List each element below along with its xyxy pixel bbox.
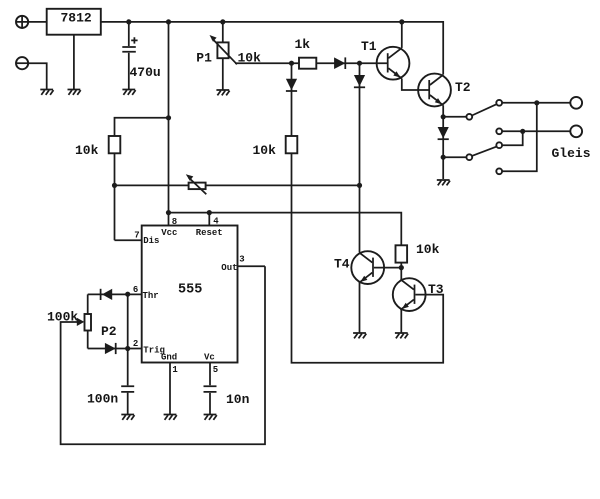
diode D4	[438, 127, 449, 139]
wire throw4 crossover	[502, 103, 537, 172]
node D1/T1 base	[357, 61, 362, 66]
svg-text:Out: Out	[221, 263, 237, 273]
regulator IC 7812	[47, 9, 101, 35]
trimmer R4	[115, 174, 360, 194]
resistor R3 10k	[286, 136, 298, 153]
svg-text:Vc: Vc	[204, 353, 215, 363]
pin 6 Thr	[133, 285, 159, 301]
pin 5 Vc	[204, 353, 218, 415]
capacitor C1 470u	[122, 22, 137, 90]
wire C2 branch	[127, 294, 129, 414]
svg-text:7: 7	[134, 231, 139, 241]
svg-text:1k: 1k	[295, 37, 311, 52]
resistor R1 10k	[109, 118, 169, 240]
diode D5	[101, 289, 113, 300]
pin 1 Gnd	[161, 353, 178, 415]
switch S1 blade2	[472, 147, 497, 156]
potentiometer P2 100k	[77, 294, 91, 348]
wire rail down to 555 supply	[168, 22, 170, 213]
svg-text:5: 5	[213, 365, 218, 375]
svg-text:T1: T1	[361, 39, 377, 54]
ground	[204, 415, 217, 420]
transistor T2	[418, 74, 451, 107]
diode D2	[354, 75, 365, 87]
switch S1 throw4 contact	[496, 168, 502, 174]
svg-text:P2: P2	[101, 324, 117, 339]
svg-text:Gnd: Gnd	[161, 353, 177, 363]
svg-text:100n: 100n	[87, 392, 118, 407]
svg-text:Thr: Thr	[143, 291, 159, 301]
svg-text:7812: 7812	[61, 10, 92, 25]
node throw2/crosswire	[520, 129, 525, 134]
ground	[122, 90, 135, 95]
ground	[40, 90, 53, 95]
wire T4 emitter	[359, 283, 361, 334]
node pin8	[166, 210, 171, 215]
terminal Gleis A	[570, 97, 582, 109]
potentiometer P1 10k	[210, 22, 238, 90]
wire switch pole1	[443, 116, 466, 118]
capacitor C3 10n	[204, 386, 217, 392]
svg-text:555: 555	[178, 283, 202, 298]
wire P1 wiper line	[235, 62, 388, 64]
resistor R5 10k	[396, 245, 408, 262]
wire T4 base	[374, 267, 401, 269]
node R5/T4 base/T3 collector	[399, 265, 404, 270]
diode D3	[286, 79, 297, 91]
svg-text:2: 2	[133, 339, 138, 349]
node D2/pot wire	[357, 183, 362, 188]
node D4/switch	[441, 155, 446, 160]
switch S1 blade1	[472, 104, 497, 115]
node Trig/C2	[125, 346, 130, 351]
wire Trig branch	[88, 348, 142, 350]
svg-text:10n: 10n	[226, 392, 250, 407]
svg-text:T4: T4	[334, 257, 350, 272]
svg-text:T3: T3	[428, 282, 444, 297]
node Thr/C2	[125, 292, 130, 297]
node rail/Vcc branch	[166, 19, 171, 24]
op-amp U1 555 box	[142, 226, 238, 363]
svg-text:10k: 10k	[75, 143, 99, 158]
svg-text:4: 4	[213, 217, 219, 227]
wire T2 emitter chain	[442, 105, 444, 179]
node R1 branch	[166, 115, 171, 120]
switch S1 throw3 contact	[496, 142, 502, 148]
svg-text:Dis: Dis	[143, 236, 159, 246]
transistor T1	[377, 47, 410, 80]
ground	[68, 35, 81, 95]
terminal Gleis B	[570, 125, 582, 137]
wire vertical D2 branch	[359, 63, 361, 252]
ground	[121, 415, 134, 420]
pin 4 Reset	[196, 213, 223, 238]
svg-text:P1: P1	[196, 51, 212, 66]
switch S1 pole2 contact	[466, 154, 472, 160]
wire plus to 7812	[28, 21, 47, 23]
svg-text:100k: 100k	[47, 310, 78, 325]
wire throw2 to terminal	[502, 130, 570, 132]
node T2 emitter	[441, 114, 446, 119]
svg-text:Gleis: Gleis	[552, 146, 591, 161]
node pin4	[207, 210, 212, 215]
wire throw1 to terminal	[502, 102, 570, 104]
pin 8 Vcc	[161, 213, 177, 238]
svg-text:Vcc: Vcc	[161, 228, 177, 238]
wire Out feedback loop	[61, 266, 265, 444]
wire switch pole2	[443, 156, 466, 158]
terminal X2 minus	[16, 57, 28, 69]
diode D6	[105, 343, 116, 354]
switch S1 throw1 contact	[496, 100, 502, 106]
wire T1 emitter to T2 base	[402, 79, 429, 91]
terminal X1 plus	[16, 16, 28, 28]
svg-text:T2: T2	[455, 80, 471, 95]
svg-text:6: 6	[133, 285, 138, 295]
capacitor C2 100n	[121, 386, 134, 392]
node rail/P1	[220, 19, 225, 24]
svg-text:10k: 10k	[253, 143, 277, 158]
node T1 collector	[399, 19, 404, 24]
transistor T3	[393, 278, 426, 311]
svg-text:10k: 10k	[416, 242, 440, 257]
ground	[437, 180, 450, 185]
switch S1 pole1 contact	[466, 114, 472, 120]
node R1/pot/Dis	[112, 183, 117, 188]
wire minus to ground	[28, 63, 47, 89]
pin 7 Dis	[134, 231, 159, 247]
switch S1 throw2 contact	[496, 128, 502, 134]
wire 12V rail	[101, 22, 443, 75]
svg-text:8: 8	[172, 217, 177, 227]
svg-text:Reset: Reset	[196, 228, 223, 238]
ground	[216, 90, 229, 95]
wire throw3 crossover	[502, 131, 523, 145]
ground	[353, 333, 366, 338]
wire Dis pin7	[115, 239, 142, 241]
wire Vcc-Reset rail	[169, 213, 402, 280]
wire T1 collector	[401, 22, 403, 48]
svg-text:470u: 470u	[130, 65, 161, 80]
svg-text:1: 1	[172, 365, 178, 375]
ground	[164, 415, 177, 420]
pin 2 Trig	[133, 339, 165, 356]
ground	[395, 333, 408, 338]
wire R6 branch chain	[292, 63, 444, 363]
node wiper/R3	[289, 61, 294, 66]
resistor R2 1k	[299, 58, 316, 69]
node rail/C1	[126, 19, 131, 24]
pin 3 Out	[221, 255, 265, 274]
wire Thr branch	[88, 293, 142, 295]
svg-text:3: 3	[239, 255, 244, 265]
transistor T4	[351, 251, 384, 284]
node throw1/crosswire	[534, 100, 539, 105]
diode D1	[334, 57, 345, 69]
wire T3 emitter	[400, 310, 402, 334]
